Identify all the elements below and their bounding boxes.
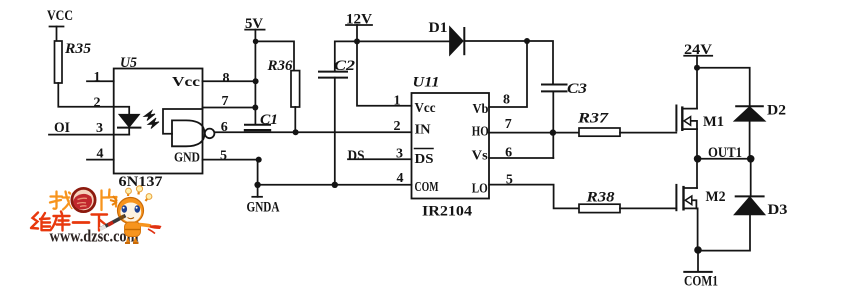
svg-text:M1: M1: [703, 114, 724, 130]
svg-text:Vcc: Vcc: [415, 101, 436, 116]
wire OUT1 to D3: [750, 159, 752, 196]
wire 12V rail down to pin 1: [357, 25, 412, 106]
wire R38 to M2 gate: [620, 207, 676, 209]
resistor R37: [579, 128, 620, 136]
ground COM1: [684, 271, 711, 273]
svg-text:C1: C1: [260, 112, 278, 128]
svg-text:OUT1: OUT1: [708, 145, 742, 161]
wire GNDA rail to COM pin 4: [258, 184, 412, 186]
wire C2 to GNDA rail: [334, 78, 336, 185]
svg-text:U5: U5: [120, 55, 137, 71]
wire U5 pin 4 stub: [87, 159, 114, 161]
node 5V label: [245, 16, 263, 32]
watermark logo dzsc.com: [31, 186, 162, 246]
svg-text:OI: OI: [54, 120, 70, 136]
watermark text wei-ku-yi-xia: [31, 212, 107, 231]
wire HO pin 7 to R37: [489, 132, 579, 134]
junction dot COM1: [694, 246, 702, 254]
wire R37 to M1 gate: [620, 132, 676, 134]
watermark glyph pian: [102, 190, 117, 211]
LED triangle: [120, 115, 139, 127]
junction dot Vb: [524, 38, 530, 44]
ground GNDA: [257, 185, 259, 197]
wire Vb pin 8 riser: [489, 41, 527, 107]
watermark mascot: [100, 186, 162, 243]
IC U11 box IR2104: [412, 93, 490, 199]
node 24V label: [684, 42, 712, 58]
wire C3 bottom to Vs: [552, 91, 554, 158]
svg-text:1: 1: [394, 94, 401, 109]
LED D-U5 anode wire: [114, 107, 130, 115]
svg-text:HO: HO: [472, 125, 489, 140]
pin 3 DS overline inside U11: [415, 148, 434, 150]
diode D2: [736, 105, 763, 107]
svg-text:7: 7: [505, 117, 512, 132]
wire 5V rail down to C1: [254, 30, 256, 124]
svg-text:VCC: VCC: [47, 8, 73, 24]
svg-text:8: 8: [503, 93, 510, 108]
junction dot 24V: [694, 65, 700, 71]
wire COM1 stub: [697, 251, 699, 272]
junction dot OUT1 right: [747, 155, 755, 163]
svg-text:4: 4: [397, 171, 404, 186]
svg-text:5: 5: [506, 173, 513, 188]
light emission arrows: [144, 111, 155, 121]
wire 12V rail to D1: [357, 40, 450, 42]
capacitor C2: [319, 71, 347, 73]
LED cathode bar: [118, 127, 140, 129]
svg-text:R35: R35: [64, 41, 92, 57]
wire D1 cathode to Vb node: [464, 41, 553, 84]
junction dot GNDA: [254, 182, 260, 188]
node DS label: [348, 148, 365, 164]
wire DS to pin 3: [348, 158, 412, 160]
wire VCC to R35: [56, 27, 58, 42]
wire OI to U5 pin 3: [49, 134, 129, 136]
wire enable hook to gate: [163, 109, 203, 134]
wire U5 pin 5: [203, 159, 259, 161]
svg-text:DS: DS: [415, 152, 434, 167]
resistor R36: [291, 71, 300, 107]
svg-text:COM1: COM1: [684, 274, 718, 289]
wire 5V branch to R36: [256, 41, 294, 70]
svg-text:GND: GND: [174, 151, 200, 166]
svg-text:Vb: Vb: [473, 102, 489, 117]
svg-text:4: 4: [97, 147, 104, 162]
watermark magnifier circle with fist: [72, 188, 95, 211]
svg-text:8: 8: [223, 71, 230, 86]
wire R35 to U5 pin 2: [58, 83, 113, 107]
svg-text:M2: M2: [706, 189, 726, 205]
svg-text:C2: C2: [334, 58, 356, 74]
svg-text:Vcc: Vcc: [172, 75, 200, 90]
svg-text:LO: LO: [472, 181, 488, 196]
wire OUT1: [698, 158, 751, 160]
resistor R35: [55, 41, 63, 83]
wire VCC tick: [50, 26, 64, 28]
mascot pen: [101, 216, 126, 229]
wire M1 source to OUT1: [696, 129, 698, 159]
svg-text:2: 2: [94, 96, 101, 111]
op-amp U5 box (6N137): [114, 69, 203, 174]
junction dot pin8/5V: [253, 78, 259, 84]
junction dot HO/C3: [550, 129, 556, 135]
wire U5 pin 8 to 5V rail: [203, 80, 257, 82]
svg-text:IR2104: IR2104: [422, 204, 473, 220]
wire U5 pin 7 to rail: [203, 107, 256, 109]
svg-text:C3: C3: [567, 81, 588, 97]
svg-text:6: 6: [505, 146, 512, 161]
wire 24V tick: [684, 55, 712, 57]
wire U5 pin 6 net to IR2104 IN: [214, 131, 411, 133]
wire M2 drain to OUT1: [696, 159, 698, 188]
svg-text:DS: DS: [348, 148, 365, 164]
wire LO pin 5 to R38: [489, 185, 579, 209]
svg-text:5: 5: [220, 149, 227, 164]
wire pin5 down to GNDA rail: [257, 160, 259, 185]
svg-text:Vs: Vs: [472, 148, 489, 163]
node 12V label: [346, 12, 372, 28]
svg-text:D1: D1: [429, 20, 448, 36]
junction dot 12V: [354, 38, 360, 44]
svg-text:R38: R38: [585, 190, 615, 206]
junction dot R36/IN: [293, 129, 299, 135]
svg-text:3: 3: [96, 121, 103, 136]
svg-text:R36: R36: [267, 58, 293, 74]
node VCC label: [47, 8, 73, 24]
wire 24V rail down to M1 drain: [696, 56, 698, 109]
transistor M2: [675, 185, 677, 210]
diode D1: [450, 28, 463, 55]
node OI label: [54, 120, 70, 136]
wire R36 to IN net: [294, 107, 296, 132]
capacitor C1: [245, 124, 270, 126]
svg-text:U11: U11: [413, 75, 440, 91]
wire 24V branch to D2: [697, 68, 750, 106]
svg-text:D2: D2: [767, 103, 786, 119]
junction dot OUT1 left: [694, 155, 702, 163]
svg-text:1: 1: [94, 70, 101, 85]
wire 5V tick: [245, 29, 264, 31]
svg-text:2: 2: [394, 119, 401, 134]
wire U5 pin 1 stub: [87, 80, 114, 82]
wire 12V tick: [346, 24, 372, 26]
junction dot 5V/R36 branch: [253, 39, 259, 45]
junction dot C2 branch: [332, 182, 338, 188]
svg-text:IN: IN: [415, 123, 431, 138]
resistor R38: [579, 204, 620, 212]
transistor M1: [675, 106, 677, 131]
LED cathode to pin 3: [128, 128, 130, 135]
wire M2 source to COM1 node: [697, 208, 699, 250]
capacitor C3: [542, 84, 567, 86]
svg-text:D3: D3: [768, 202, 788, 218]
gate output bubble: [205, 129, 215, 139]
junction dot pin7/C1: [252, 105, 258, 111]
wire C2 top to 12V rail: [335, 41, 357, 71]
svg-text:COM: COM: [415, 180, 439, 195]
svg-text:R37: R37: [577, 111, 609, 127]
watermark glyph zhao: [50, 192, 73, 210]
gate U5 output stage: [172, 120, 205, 146]
node OUT1 label: [708, 145, 742, 161]
svg-text:GNDA: GNDA: [247, 200, 280, 216]
diode D3: [736, 195, 764, 197]
wire Vs pin 6: [489, 157, 553, 159]
junction dot pin5/GNDA: [256, 157, 262, 163]
